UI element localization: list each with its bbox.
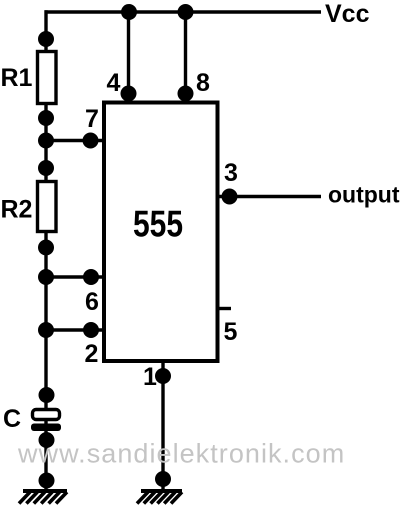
- resistor R1: [38, 31, 57, 126]
- pin 7 terminal dot: [83, 133, 99, 149]
- pin 8 terminal dot: [178, 86, 194, 102]
- wire pin 6 horizontal: [46, 275, 103, 278]
- junction above center ground: [155, 471, 171, 487]
- pin 1 terminal dot: [155, 368, 171, 384]
- svg-text:5: 5: [224, 318, 238, 346]
- svg-text:8: 8: [196, 69, 210, 97]
- svg-text:www.sandielektronik.com: www.sandielektronik.com: [17, 439, 345, 469]
- svg-text:7: 7: [85, 105, 99, 133]
- svg-text:1: 1: [143, 363, 157, 391]
- svg-text:C: C: [3, 405, 21, 433]
- wire pin 2 horizontal: [46, 328, 103, 331]
- wire pin 8 vertical: [184, 12, 187, 101]
- wire pin 1 vertical: [161, 361, 164, 490]
- op-amp/timer IC U1 555: [104, 103, 218, 362]
- svg-text:555: 555: [133, 204, 183, 245]
- wire top Vcc rail: [45, 10, 322, 13]
- wire pin 7 horizontal: [46, 139, 103, 142]
- junction left rail to pin 7: [38, 133, 54, 149]
- wire pin 5 stub: [217, 307, 231, 310]
- svg-text:3: 3: [224, 159, 238, 187]
- pin 2 terminal dot: [83, 322, 99, 338]
- capacitor C1: [31, 387, 61, 448]
- junction top wire to pin 8: [178, 4, 194, 20]
- svg-text:6: 6: [85, 288, 99, 316]
- wire pin 3 output horizontal: [217, 195, 321, 198]
- junction left rail to pin 6: [38, 269, 54, 285]
- svg-text:2: 2: [85, 340, 99, 368]
- junction above left ground: [39, 473, 55, 489]
- junction left rail to pin 2: [38, 322, 54, 338]
- pin 4 terminal dot: [121, 86, 137, 102]
- svg-text:Vcc: Vcc: [325, 0, 370, 28]
- ground left: [19, 489, 67, 504]
- svg-text:4: 4: [107, 69, 121, 97]
- ground center: [137, 489, 182, 504]
- junction top wire to pin 4: [121, 4, 137, 20]
- resistor R2: [38, 160, 57, 256]
- wire left rail: [44, 10, 47, 490]
- pin 6 terminal dot: [83, 269, 99, 285]
- wire pin 4 vertical: [127, 12, 130, 101]
- pin 3 terminal dot: [222, 189, 238, 205]
- svg-text:output: output: [328, 182, 400, 208]
- svg-text:R1: R1: [1, 64, 33, 92]
- svg-text:R2: R2: [1, 196, 33, 224]
